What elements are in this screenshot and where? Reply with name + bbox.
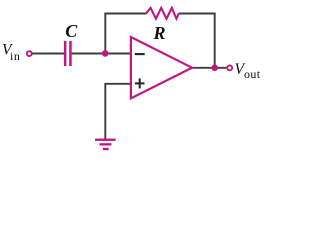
- wire output node to output terminal: [215, 67, 227, 69]
- wire inverting node to op-amp inverting input: [105, 53, 131, 55]
- wire capacitor to inverting node: [72, 53, 106, 55]
- wire ground node to op-amp non-inverting input: [104, 83, 131, 85]
- wire feedback right vertical: [214, 13, 216, 68]
- node junction at output: [211, 65, 218, 72]
- node junction at inverting input: [102, 50, 109, 57]
- capacitor C: [64, 41, 72, 66]
- wire non-inverting input down to ground: [104, 84, 106, 140]
- ground: [95, 139, 116, 151]
- terminal Vout: [227, 65, 232, 70]
- label Vout: [235, 61, 261, 81]
- op-amp inverting pin marker (-): [135, 53, 145, 55]
- label Vin: [2, 42, 21, 63]
- terminal Vin: [27, 51, 32, 56]
- op-amp non-inverting pin marker (+): [135, 78, 145, 88]
- wire input terminal to capacitor: [32, 53, 65, 55]
- wire feedback left vertical: [104, 13, 106, 54]
- wire feedback top horizontal left of resistor: [104, 13, 146, 15]
- wire op-amp output: [191, 67, 215, 69]
- wire feedback top horizontal right of resistor: [179, 13, 216, 15]
- op-amp U1: [131, 37, 192, 98]
- svg-text:C: C: [65, 21, 78, 41]
- svg-text:out: out: [244, 67, 261, 81]
- svg-text:R: R: [153, 23, 166, 43]
- svg-text:in: in: [10, 49, 21, 63]
- resistor R: [146, 8, 179, 19]
